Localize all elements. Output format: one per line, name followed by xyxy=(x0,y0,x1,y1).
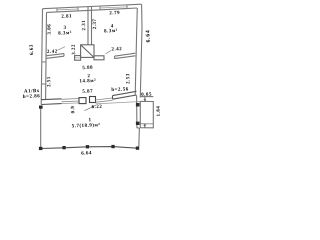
svg-text:2.37: 2.37 xyxy=(93,18,98,29)
svg-text:2.42: 2.42 xyxy=(111,47,122,52)
svg-text:2.51: 2.51 xyxy=(47,76,52,87)
svg-text:0.85: 0.85 xyxy=(141,92,152,97)
svg-text:5.87: 5.87 xyxy=(82,89,93,94)
svg-text:5.88: 5.88 xyxy=(82,66,93,71)
svg-text:2.31: 2.31 xyxy=(82,20,87,31)
svg-text:8.3м²: 8.3м² xyxy=(58,30,72,37)
svg-text:3: 3 xyxy=(63,26,66,31)
svg-text:6.64: 6.64 xyxy=(81,151,92,156)
svg-text:2.81: 2.81 xyxy=(61,14,72,19)
svg-text:6.64: 6.64 xyxy=(145,29,151,42)
svg-text:h=2.86: h=2.86 xyxy=(23,94,41,100)
svg-text:1.84: 1.84 xyxy=(157,105,162,116)
svg-text:6.22: 6.22 xyxy=(91,105,102,110)
svg-text:h=2.56: h=2.56 xyxy=(111,87,129,93)
svg-text:2.79: 2.79 xyxy=(109,11,120,16)
svg-text:0.9: 0.9 xyxy=(71,105,76,113)
svg-text:2.53: 2.53 xyxy=(126,73,131,84)
svg-text:14.8м²: 14.8м² xyxy=(79,78,96,85)
svg-text:2.42: 2.42 xyxy=(47,50,58,55)
svg-text:8.3м²: 8.3м² xyxy=(104,28,118,35)
svg-text:6.63: 6.63 xyxy=(30,44,35,55)
svg-text:5.7(18.9)м²: 5.7(18.9)м² xyxy=(72,122,101,129)
svg-text:3.06: 3.06 xyxy=(47,24,52,35)
svg-text:3.22: 3.22 xyxy=(72,44,77,55)
svg-text:1: 1 xyxy=(88,118,91,123)
